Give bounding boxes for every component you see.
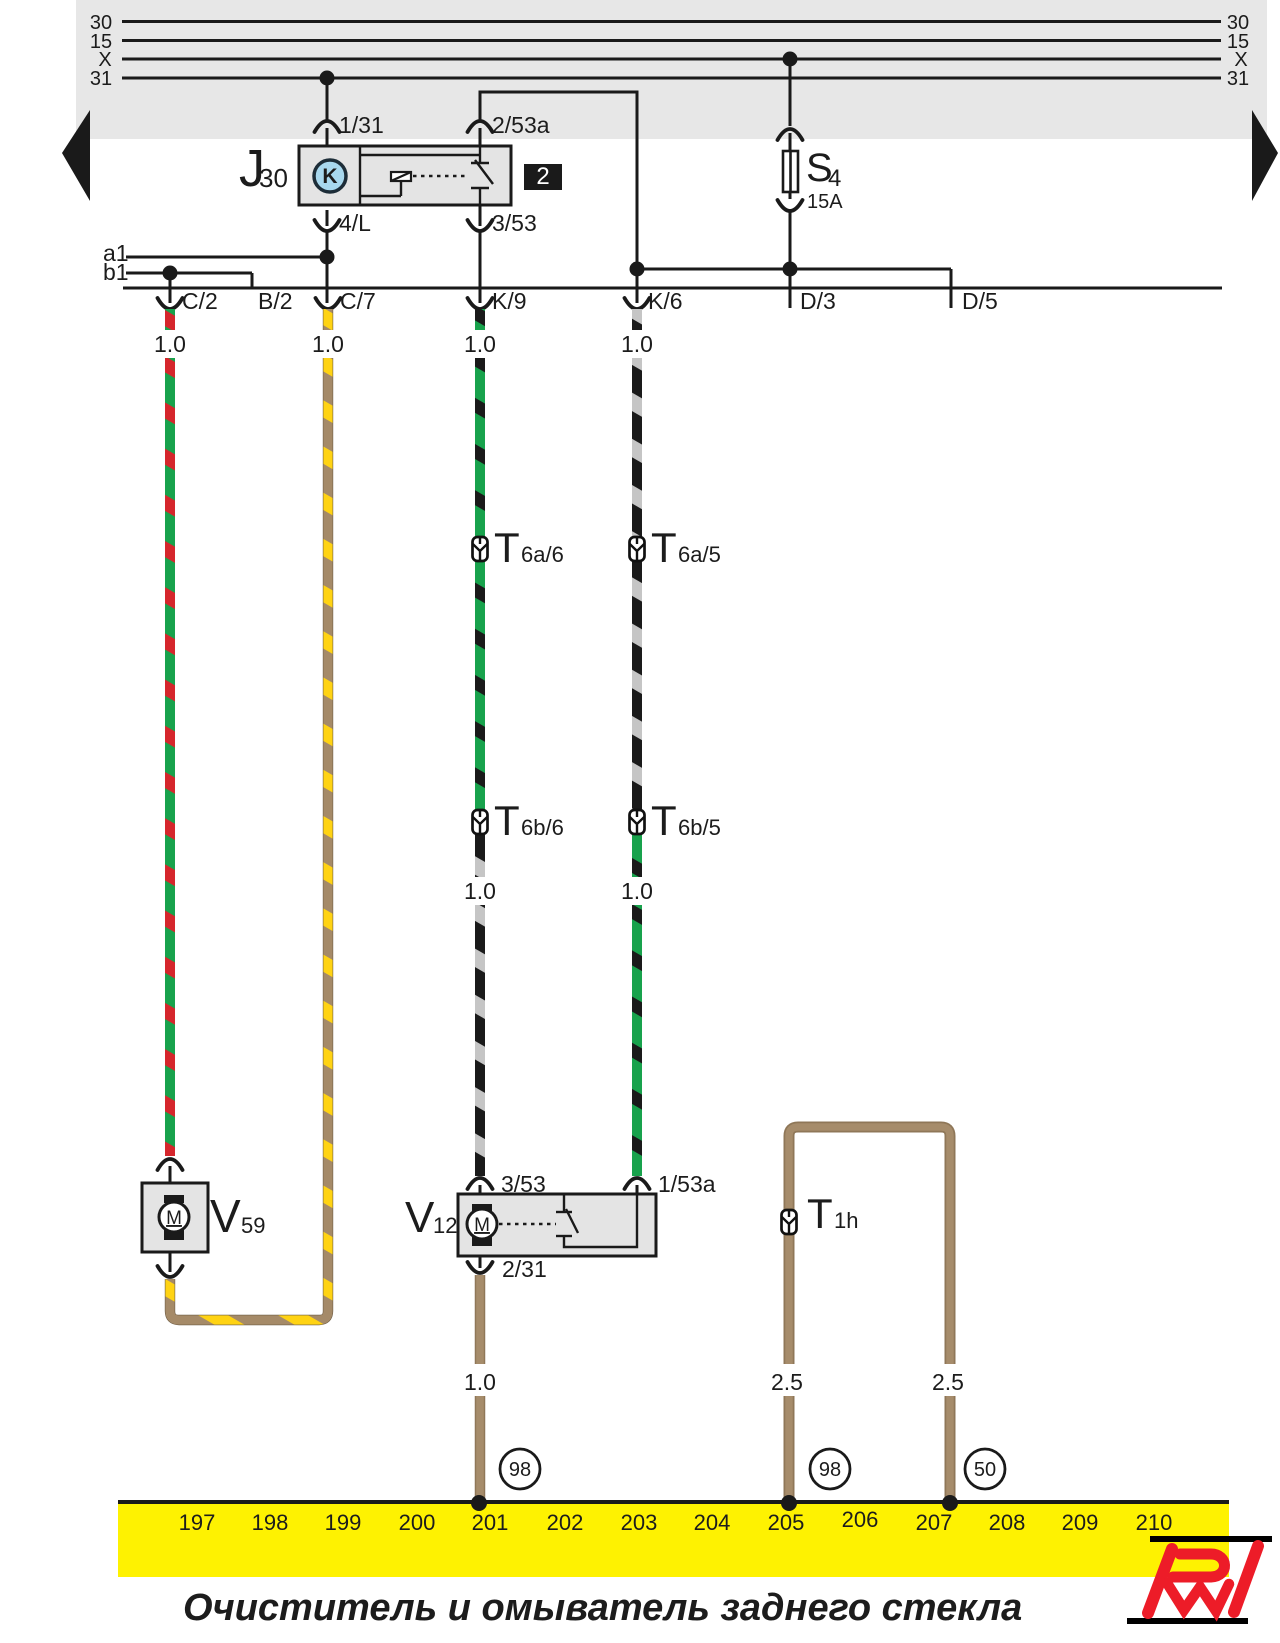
svg-text:3/53: 3/53 bbox=[492, 210, 537, 236]
svg-text:210: 210 bbox=[1136, 1510, 1173, 1535]
svg-text:M: M bbox=[474, 1215, 490, 1236]
svg-text:50: 50 bbox=[974, 1459, 996, 1481]
svg-text:1.0: 1.0 bbox=[621, 331, 653, 357]
svg-text:T: T bbox=[651, 524, 677, 571]
svg-text:197: 197 bbox=[179, 1510, 216, 1535]
svg-text:200: 200 bbox=[399, 1510, 436, 1535]
svg-text:V: V bbox=[405, 1193, 435, 1242]
svg-text:206: 206 bbox=[842, 1507, 879, 1532]
svg-text:6b/5: 6b/5 bbox=[678, 815, 721, 840]
svg-text:207: 207 bbox=[916, 1510, 953, 1535]
svg-text:T: T bbox=[494, 797, 520, 844]
svg-text:203: 203 bbox=[621, 1510, 658, 1535]
svg-text:D/5: D/5 bbox=[962, 288, 998, 314]
svg-text:30: 30 bbox=[259, 163, 288, 193]
svg-text:1.0: 1.0 bbox=[621, 878, 653, 904]
svg-text:198: 198 bbox=[252, 1510, 289, 1535]
svg-text:202: 202 bbox=[547, 1510, 584, 1535]
svg-text:31: 31 bbox=[90, 68, 112, 90]
svg-text:2.5: 2.5 bbox=[932, 1369, 964, 1395]
svg-text:K: K bbox=[322, 165, 337, 188]
svg-text:1h: 1h bbox=[834, 1208, 858, 1233]
svg-text:208: 208 bbox=[989, 1510, 1026, 1535]
svg-text:1/53a: 1/53a bbox=[658, 1171, 716, 1197]
svg-text:205: 205 bbox=[768, 1510, 805, 1535]
svg-text:4: 4 bbox=[828, 165, 841, 192]
svg-text:204: 204 bbox=[694, 1510, 731, 1535]
svg-text:4/L: 4/L bbox=[339, 210, 371, 236]
svg-text:1.0: 1.0 bbox=[464, 331, 496, 357]
svg-text:6a/6: 6a/6 bbox=[521, 542, 564, 567]
svg-text:K/9: K/9 bbox=[492, 288, 527, 314]
svg-text:201: 201 bbox=[472, 1510, 509, 1535]
svg-text:1.0: 1.0 bbox=[312, 331, 344, 357]
svg-text:199: 199 bbox=[325, 1510, 362, 1535]
svg-text:6b/6: 6b/6 bbox=[521, 815, 564, 840]
svg-text:12: 12 bbox=[433, 1213, 457, 1238]
svg-text:98: 98 bbox=[509, 1459, 531, 1481]
svg-text:Очиститель и омыватель заднего: Очиститель и омыватель заднего стекла bbox=[183, 1587, 1022, 1629]
svg-text:15A: 15A bbox=[807, 191, 843, 213]
svg-text:C/7: C/7 bbox=[340, 288, 376, 314]
svg-text:31: 31 bbox=[1227, 68, 1249, 90]
svg-text:1/31: 1/31 bbox=[339, 112, 384, 138]
svg-text:209: 209 bbox=[1062, 1510, 1099, 1535]
svg-text:1.0: 1.0 bbox=[464, 878, 496, 904]
svg-text:2.5: 2.5 bbox=[771, 1369, 803, 1395]
svg-text:M: M bbox=[166, 1208, 182, 1229]
svg-text:1.0: 1.0 bbox=[464, 1369, 496, 1395]
svg-text:b1: b1 bbox=[103, 259, 129, 285]
svg-text:T: T bbox=[807, 1190, 833, 1237]
svg-text:2/31: 2/31 bbox=[502, 1256, 547, 1282]
svg-text:1.0: 1.0 bbox=[154, 331, 186, 357]
svg-text:6a/5: 6a/5 bbox=[678, 542, 721, 567]
svg-text:3/53: 3/53 bbox=[501, 1171, 546, 1197]
svg-text:2/53a: 2/53a bbox=[492, 112, 550, 138]
svg-text:59: 59 bbox=[241, 1213, 265, 1238]
svg-text:V: V bbox=[210, 1190, 241, 1242]
svg-text:2: 2 bbox=[536, 163, 549, 190]
svg-text:D/3: D/3 bbox=[800, 288, 836, 314]
svg-text:98: 98 bbox=[819, 1459, 841, 1481]
svg-text:K/6: K/6 bbox=[648, 288, 683, 314]
svg-text:C/2: C/2 bbox=[182, 288, 218, 314]
svg-text:T: T bbox=[494, 524, 520, 571]
svg-text:B/2: B/2 bbox=[258, 288, 293, 314]
svg-text:T: T bbox=[651, 797, 677, 844]
